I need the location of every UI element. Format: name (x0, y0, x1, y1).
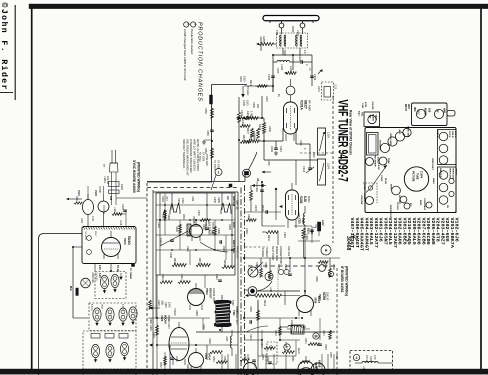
svg-text:40μf: 40μf (358, 111, 361, 116)
noise inv tube (403, 126, 411, 138)
rear view caption (349, 110, 353, 155)
sync inner box (156, 193, 235, 275)
dark coil leads (196, 295, 335, 332)
svg-text:100Ω: 100Ω (120, 184, 123, 190)
svg-text:1500: 1500 (222, 246, 225, 252)
svg-text:C240: C240 (361, 103, 364, 109)
svg-text:C322: C322 (152, 332, 155, 338)
sync small labels (161, 196, 229, 204)
chassis if tubes (436, 130, 456, 164)
svg-text:PICTURE: PICTURE (412, 171, 415, 182)
sync tube V303 (190, 219, 203, 241)
svg-text:PIC: PIC (409, 203, 411, 207)
svg-text:L202: L202 (289, 66, 293, 72)
horiz tube labels (160, 315, 170, 329)
svg-text:R225: R225 (264, 262, 267, 268)
svg-text:C228: C228 (284, 264, 287, 270)
sync board extra labels (157, 210, 231, 258)
svg-text:R242: R242 (274, 330, 277, 336)
wire long x212 (211, 85, 213, 182)
if wires mesh (244, 258, 340, 279)
svg-text:6.3V: 6.3V (98, 273, 100, 278)
svg-text:INTERLOCK: INTERLOCK (389, 205, 391, 218)
mixer text block (271, 246, 282, 265)
grid wire to V201 (246, 79, 312, 96)
copyright stamp rule (0, 5, 15, 100)
svg-text:PHASE DET: PHASE DET (236, 246, 239, 260)
waveform 2 (221, 203, 231, 214)
svg-text:RF AMP: RF AMP (308, 100, 312, 111)
svg-text:SYNC AMP: SYNC AMP (205, 154, 208, 166)
svg-text:R334: R334 (212, 356, 214, 362)
svg-text:R101: R101 (75, 196, 77, 202)
bottom strip ticks (222, 352, 337, 369)
svg-text:AUDIO: AUDIO (372, 114, 375, 121)
svg-text:R311: R311 (186, 246, 189, 252)
svg-text:HORIZ OUTPUT: HORIZ OUTPUT (235, 306, 238, 325)
svg-text:R222: R222 (252, 131, 255, 138)
svg-text:T302: T302 (231, 300, 234, 306)
svg-text:CONTRAST: CONTRAST (423, 198, 426, 211)
tube V201 6BZ7 RF amp (284, 79, 298, 141)
svg-text:C241: C241 (260, 342, 263, 348)
svg-text:C209: C209 (241, 120, 244, 127)
uhf link tubes (66, 190, 112, 226)
capacitor C202 (267, 70, 275, 81)
svg-text:R320: R320 (149, 325, 152, 331)
vert osc waveform (163, 210, 166, 218)
svg-text:V201A: V201A (300, 100, 304, 110)
svg-text:VOLUME: VOLUME (360, 195, 362, 205)
coil L204 slug (318, 159, 331, 185)
tube V202 6J6 osc (275, 183, 299, 228)
svg-text:C254: C254 (261, 354, 263, 360)
svg-text:C230: C230 (332, 264, 335, 270)
FM trap L202 (284, 66, 323, 75)
note 1 text (190, 29, 194, 55)
antenna extra labels (275, 30, 310, 74)
svg-text:C208: C208 (369, 356, 373, 363)
chassis right defl box (438, 167, 457, 213)
RF AGC resistor R202 (242, 111, 264, 120)
svg-text:OSC: OSC (307, 196, 311, 203)
svg-text:SHIELD: SHIELD (265, 248, 269, 257)
svg-text:DEFL: DEFL (419, 200, 421, 206)
antenna terminal A (279, 21, 284, 28)
svg-text:(PRINTED WIRING): (PRINTED WIRING) (137, 162, 141, 192)
svg-text:PRODUCTION CHANGES: PRODUCTION CHANGES (197, 22, 203, 102)
if board label (340, 266, 349, 296)
svg-text:C218: C218 (245, 228, 248, 234)
svg-text:MIXER: MIXER (424, 108, 426, 116)
svg-text:SPKR: SPKR (390, 184, 392, 190)
svg-text:C203: C203 (313, 74, 317, 81)
svg-text:SOCKET TERMINALS.: SOCKET TERMINALS. (182, 139, 186, 169)
svg-text:68K: 68K (226, 196, 229, 201)
svg-text:R328: R328 (195, 310, 198, 316)
resistor R203 vertical (258, 118, 266, 141)
svg-text:TEST POINT: TEST POINT (271, 246, 274, 261)
svg-text:R230: R230 (249, 306, 252, 312)
svg-text:HORIZ: HORIZ (173, 308, 176, 316)
svg-text:L209: L209 (267, 160, 270, 166)
svg-text:120K: 120K (168, 302, 171, 308)
balun dashed box (277, 33, 308, 48)
fine tuning cap (302, 160, 314, 173)
svg-text:C326: C326 (175, 356, 177, 362)
svg-text:R232: R232 (315, 276, 318, 282)
antenna lead-in wires (282, 26, 303, 34)
svg-text:LINE IN: LINE IN (436, 130, 438, 138)
contrast control (423, 198, 432, 211)
svg-text:OSC ADJ: OSC ADJ (287, 246, 290, 257)
svg-text:C306: C306 (217, 228, 220, 234)
svg-text:300Ω: 300Ω (291, 26, 295, 32)
uhf inside parts (84, 231, 96, 254)
border top bar (29, 4, 488, 9)
svg-text:1ST IF: 1ST IF (448, 131, 450, 138)
svg-text:R209: R209 (261, 205, 264, 212)
svg-text:C104: C104 (121, 204, 124, 210)
board left arrows (149, 307, 160, 347)
svg-text:YOKE: YOKE (380, 175, 382, 182)
bottom center tube T203 (297, 291, 322, 316)
svg-text:L203: L203 (327, 132, 331, 138)
uhf tuner box (82, 227, 136, 264)
note 2 circled 2 (184, 22, 191, 27)
svg-text:C202: C202 (267, 74, 271, 81)
capacitor C206 (270, 141, 278, 155)
svg-text:+B: +B (256, 178, 259, 181)
antenna terminal B (300, 21, 305, 28)
resistor R204 (244, 134, 283, 143)
svg-text:C206: C206 (270, 146, 273, 153)
labels above board (198, 152, 208, 166)
production changes heading (197, 22, 203, 102)
svg-text:2ND IF: 2ND IF (326, 292, 330, 301)
sync dots (164, 204, 233, 251)
svg-text:C308: C308 (169, 252, 172, 258)
svg-text:OF V204: OF V204 (217, 160, 219, 170)
svg-text:SOUND IF: SOUND IF (379, 140, 381, 151)
svg-text:R250: R250 (204, 108, 207, 114)
svg-text:HTR: HTR (100, 304, 102, 309)
blk label (69, 286, 78, 296)
svg-text:R205: R205 (252, 102, 255, 108)
svg-text:V103: V103 (123, 238, 127, 245)
sound takeoff dashed box (350, 351, 393, 373)
bottom center wires (244, 300, 320, 356)
svg-text:6J6: 6J6 (303, 196, 307, 202)
pilot lamp (81, 272, 98, 288)
svg-text:HORIZ OUT: HORIZ OUT (167, 315, 170, 329)
vhf tuner rear box (412, 103, 456, 126)
sync board label (132, 160, 141, 193)
svg-text:R244: R244 (304, 338, 307, 344)
svg-text:R305: R305 (217, 197, 220, 203)
filament dashed box 1 (95, 272, 126, 299)
chassis misc labels (380, 158, 435, 218)
svg-text:AF: AF (352, 234, 357, 240)
osc grid parts (250, 185, 282, 214)
audio box (364, 112, 380, 127)
svg-text:6AL5: 6AL5 (317, 296, 321, 303)
note 2 text (183, 29, 187, 81)
sync box right labels (232, 196, 239, 260)
circled A (248, 262, 263, 277)
tube complement list (349, 218, 460, 251)
ant input label (404, 104, 410, 111)
speaker socket (390, 184, 401, 205)
svg-text:R316: R316 (173, 258, 176, 265)
svg-text:R210: R210 (267, 235, 270, 242)
svg-text:R301: R301 (177, 198, 180, 204)
if bottom parts (244, 300, 300, 375)
svg-text:L207: L207 (362, 366, 365, 372)
svg-text:V202: V202 (299, 196, 303, 204)
svg-text:ANT.: ANT. (407, 104, 410, 109)
waveform 1 (170, 203, 180, 214)
svg-text:HORIZ: HORIZ (455, 168, 457, 175)
svg-text:L211: L211 (269, 287, 272, 293)
if link wires (244, 287, 300, 307)
svg-text:AMP: AMP (443, 108, 446, 114)
bottom center labels (249, 330, 327, 368)
svg-text:R211: R211 (247, 214, 250, 220)
wire bus vertical x262 (210, 85, 263, 119)
extra mid circles (315, 261, 335, 283)
svg-text:30468: 30468 (345, 236, 351, 251)
if bottom tube (298, 356, 322, 375)
svg-text:470K: 470K (364, 102, 367, 108)
left tube col labels (149, 300, 238, 344)
svg-text:1ST: 1ST (369, 115, 371, 120)
svg-text:R332: R332 (159, 362, 161, 368)
circled note 1 on wire (211, 169, 222, 191)
svg-text:6AL5: 6AL5 (232, 222, 235, 228)
svg-text:TO TUNER: TO TUNER (129, 268, 131, 280)
video amp tube (388, 133, 397, 146)
chassis right if box (438, 130, 457, 165)
svg-text:C200: C200 (296, 30, 299, 36)
svg-text:R317: R317 (198, 258, 201, 265)
svg-text:C205: C205 (242, 100, 245, 106)
audio box labels (358, 102, 374, 118)
svg-text:6BZ7: 6BZ7 (304, 100, 308, 109)
svg-text:ON/OFF: ON/OFF (363, 193, 365, 202)
svg-text:1500: 1500 (301, 218, 304, 224)
svg-text:R260: R260 (335, 354, 337, 360)
chassis number (345, 234, 357, 251)
svg-text:C250: C250 (223, 356, 225, 362)
tuner rf extra labels (242, 94, 315, 166)
svg-text:L301: L301 (191, 196, 194, 202)
lower left wires 2 (148, 300, 227, 375)
chassis outline (365, 128, 456, 213)
svg-text:2: 2 (356, 356, 358, 360)
svg-text:6CB6: 6CB6 (322, 292, 326, 300)
sync board mid row parts (156, 274, 222, 318)
svg-text:R302: R302 (167, 214, 170, 220)
shield cable 2 (248, 281, 272, 295)
wire x239 components (238, 97, 241, 182)
svg-text:R226: R226 (324, 262, 327, 268)
lower wires (157, 275, 238, 372)
if coil mid (282, 320, 306, 327)
svg-text:6AU4: 6AU4 (208, 353, 212, 360)
horiz osc label (205, 288, 216, 303)
rectifier tube (366, 155, 380, 167)
svg-text:.047: .047 (165, 196, 168, 201)
svg-text:R318: R318 (223, 260, 226, 267)
takeoff tube (377, 157, 390, 170)
svg-text:MIXER GRID: MIXER GRID (275, 246, 278, 261)
svg-text:VOL: VOL (361, 112, 363, 117)
svg-text:47K: 47K (210, 230, 213, 235)
service arrow (369, 165, 388, 191)
agc tube (395, 130, 404, 142)
svg-text:C207: C207 (265, 96, 268, 102)
svg-text:R240: R240 (249, 334, 252, 340)
svg-text:C215: C215 (254, 205, 257, 212)
if transformer dark coil (214, 300, 232, 327)
balun coil T201 left (280, 35, 286, 47)
svg-text:C246: C246 (266, 356, 269, 362)
svg-text:TO AGC: TO AGC (246, 86, 249, 96)
svg-text:Rear View of 26Y63 Chassis: Rear View of 26Y63 Chassis (349, 110, 353, 155)
if tube V207 (318, 292, 330, 301)
svg-text:R303: R303 (175, 226, 178, 232)
junction wire mid (292, 55, 294, 70)
if cluster R216 (298, 218, 325, 258)
svg-text:C225: C225 (298, 218, 301, 224)
svg-text:LIGHTS: LIGHTS (95, 272, 98, 281)
svg-text:V102: V102 (94, 190, 97, 196)
osc coil dashed box (317, 82, 336, 100)
svg-text:C208 changed from 2000 to 470: C208 changed from 2000 to 470 mmf. (183, 29, 187, 81)
svg-text:C312: C312 (215, 274, 218, 280)
svg-text:L103: L103 (113, 207, 116, 213)
svg-text:R245: R245 (324, 344, 327, 350)
svg-text:C213: C213 (302, 166, 305, 173)
svg-text:6.3V: 6.3V (98, 265, 100, 270)
filament dashed box 4 (83, 374, 136, 375)
svg-text:©John F. Rider: ©John F. Rider (0, 3, 9, 91)
resistor cluster mid (240, 120, 253, 137)
coil right (225, 330, 232, 356)
svg-text:L208 DIAL: L208 DIAL (91, 272, 94, 284)
svg-text:C307 .01: C307 .01 (236, 200, 238, 210)
svg-text:VHF TUNER 94D92-7: VHF TUNER 94D92-7 (335, 100, 349, 182)
svg-text:M201: M201 (283, 50, 286, 57)
fil box1 sockets (98, 273, 123, 294)
svg-text:C258: C258 (329, 352, 331, 358)
uhf tube 5U4G (102, 231, 121, 259)
svg-text:R252: R252 (243, 354, 245, 360)
svg-text:4.5 MC: 4.5 MC (377, 163, 380, 170)
balun coil T201 right (296, 35, 302, 47)
svg-text:L204: L204 (327, 163, 331, 169)
svg-text:5U4G: 5U4G (127, 236, 131, 245)
horiz tube big (169, 322, 189, 365)
svg-text:R207: R207 (246, 128, 249, 135)
svg-text:V306: V306 (204, 353, 208, 360)
svg-text:SYNC SEP: SYNC SEP (407, 126, 409, 138)
svg-text:C214: C214 (317, 86, 319, 92)
svg-text:H: H (325, 248, 328, 252)
balun output wires (273, 48, 312, 92)
svg-text:C201: C201 (298, 55, 302, 62)
svg-text:T303: T303 (232, 310, 235, 316)
sync wires (156, 193, 235, 275)
svg-text:6DQ6A: 6DQ6A (164, 315, 168, 324)
svg-text:C216: C216 (255, 186, 258, 192)
svg-text:R314: R314 (180, 274, 183, 280)
vhf tuner rear tubes (413, 107, 446, 119)
jack wire to board (104, 198, 147, 214)
svg-text:21YP4: 21YP4 (420, 171, 423, 179)
chassis defl tubes (439, 168, 457, 209)
svg-text:R212: R212 (263, 300, 266, 307)
sound takeoff coil (355, 355, 393, 363)
svg-text:RECTIFIER: RECTIFIER (374, 155, 376, 167)
svg-text:1000: 1000 (246, 100, 249, 106)
sync coil (187, 224, 191, 236)
circled H (321, 245, 331, 255)
svg-text:SYNC BOARD A4060: SYNC BOARD A4060 (132, 160, 136, 193)
capacitor C201 (293, 55, 312, 66)
sound takeoff exit (362, 366, 365, 372)
if labels mid (255, 262, 327, 270)
svg-text:1000: 1000 (243, 76, 246, 82)
svg-text:C320: C320 (157, 300, 160, 306)
svg-text:TUNER: TUNER (261, 248, 265, 257)
svg-text:TP: TP (102, 164, 105, 167)
power transformer (367, 133, 379, 156)
sync board dashed border (147, 182, 238, 375)
bottom hatched coil (287, 325, 310, 334)
svg-text:1: 1 (194, 23, 198, 25)
focus control (396, 196, 411, 210)
svg-text:IF BOARD A4061: IF BOARD A4061 (340, 266, 344, 293)
svg-text:R330: R330 (208, 338, 211, 344)
uhf area extra (74, 186, 126, 226)
svg-text:6X8: 6X8 (428, 108, 431, 113)
filament dashed box 2 (89, 303, 136, 331)
svg-text:C301: C301 (161, 196, 164, 202)
svg-text:LOOKER POINT: LOOKER POINT (279, 246, 282, 265)
osc plate parts (262, 182, 312, 245)
svg-text:C221: C221 (240, 110, 243, 117)
fil box3 tops (91, 334, 128, 339)
bottom strip tube (244, 363, 326, 375)
picture tube (404, 167, 428, 191)
svg-text:(PRINTED WIRING): (PRINTED WIRING) (345, 266, 349, 296)
svg-text:C212: C212 (312, 152, 315, 158)
svg-text:PLUG: PLUG (384, 178, 386, 184)
svg-text:R224: R224 (255, 262, 258, 268)
note 1 circled 1 (191, 22, 198, 27)
svg-text:VIDEO AMP: VIDEO AMP (389, 133, 392, 146)
svg-text:R313: R313 (161, 274, 164, 280)
svg-text:C324: C324 (202, 324, 205, 330)
tube V202 label (299, 196, 311, 204)
wire B+ horizontal (147, 172, 245, 182)
uhf below wires (73, 247, 111, 318)
mid wire components x212 (202, 108, 219, 170)
VHF TUNER 94D92-7 title (335, 100, 349, 182)
svg-text:R256: R256 (291, 356, 293, 362)
